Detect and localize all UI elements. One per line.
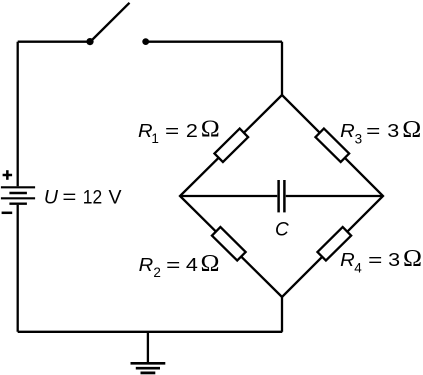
svg-text:=: = [62, 186, 76, 208]
svg-text:3: 3 [388, 249, 400, 270]
svg-text:3: 3 [355, 131, 363, 146]
svg-text:Ω: Ω [201, 117, 220, 143]
svg-text:4: 4 [354, 260, 362, 275]
svg-text:R: R [139, 254, 154, 275]
svg-text:2: 2 [186, 120, 198, 141]
svg-text:U: U [44, 186, 59, 208]
svg-text:R: R [340, 120, 355, 141]
svg-text:Ω: Ω [201, 251, 220, 277]
svg-text:=: = [368, 249, 382, 270]
svg-text:=: = [166, 254, 180, 275]
svg-text:Ω: Ω [402, 117, 421, 143]
svg-text:Ω: Ω [403, 246, 422, 272]
svg-text:R: R [340, 249, 355, 270]
svg-text:2: 2 [153, 265, 161, 280]
svg-text:12: 12 [83, 186, 102, 208]
svg-text:1: 1 [151, 131, 159, 146]
svg-text:C: C [275, 219, 289, 240]
svg-text:V: V [109, 186, 122, 208]
svg-text:=: = [366, 120, 380, 141]
svg-text:4: 4 [186, 254, 198, 275]
svg-text:3: 3 [387, 120, 399, 141]
svg-text:=: = [165, 120, 179, 141]
